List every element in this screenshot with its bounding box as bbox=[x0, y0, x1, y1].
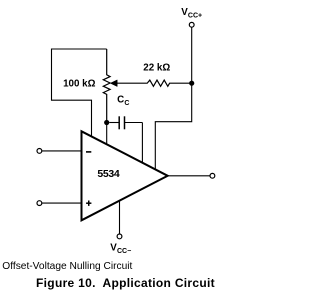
wire output bbox=[168, 175, 210, 177]
wire VCC+ down to junction bbox=[191, 27, 193, 83]
svg-text:C: C bbox=[117, 95, 124, 106]
terminal inverting input bbox=[37, 149, 42, 154]
svg-text:CC−: CC− bbox=[117, 248, 131, 255]
terminal VCC- bbox=[117, 234, 122, 239]
node VCC- label bbox=[110, 243, 131, 255]
svg-text:CC+: CC+ bbox=[188, 12, 202, 19]
junction dot (22k / VCC+ wire) bbox=[189, 81, 194, 86]
capacitor CC label bbox=[117, 95, 129, 107]
op-amp minus input symbol bbox=[86, 151, 91, 153]
wire noninverting input bbox=[42, 202, 81, 204]
svg-text:5534: 5534 bbox=[97, 168, 119, 180]
wire V- pin down bbox=[119, 201, 121, 234]
wire Cc right plate down to comp pin bbox=[141, 123, 143, 164]
wire VCC+ feed down to V+ pin bbox=[155, 83, 191, 169]
wire pot bottom to balance pin on triangle bbox=[106, 123, 108, 146]
svg-text:Figure 10. Application Circui: Figure 10. Application Circuit bbox=[36, 276, 215, 290]
wire loop from pot top to balance pin bbox=[52, 49, 107, 137]
capacitor CC bbox=[109, 116, 142, 129]
terminal VCC+ bbox=[189, 22, 194, 27]
node VCC+ label bbox=[181, 7, 202, 19]
wire inverting input bbox=[42, 150, 81, 152]
potentiometer wiper arrow bbox=[110, 80, 117, 87]
potentiometer 100 kOhm (vertical) bbox=[103, 49, 110, 123]
svg-text:Offset-Voltage Nulling Circuit: Offset-Voltage Nulling Circuit bbox=[2, 261, 132, 272]
resistor R 22 kOhm bbox=[117, 80, 192, 86]
op-amp plus input symbol bbox=[86, 201, 91, 206]
svg-text:100 kΩ: 100 kΩ bbox=[63, 79, 96, 90]
terminal noninverting input bbox=[37, 201, 42, 206]
svg-text:C: C bbox=[124, 100, 129, 107]
terminal output bbox=[210, 173, 215, 178]
op-amp U1 5534 triangle bbox=[82, 131, 168, 220]
svg-text:22 kΩ: 22 kΩ bbox=[143, 63, 170, 74]
junction node (pot bottom / Cc) bbox=[104, 120, 109, 125]
